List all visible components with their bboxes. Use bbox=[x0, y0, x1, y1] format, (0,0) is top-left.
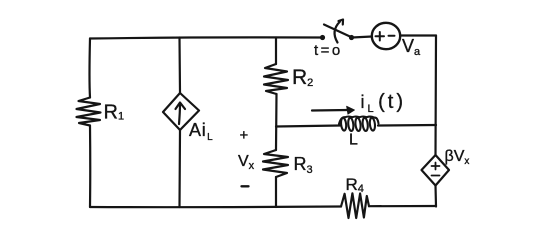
svg-text:βVx: βVx bbox=[445, 148, 470, 167]
wire CCCS column top bbox=[178, 38, 181, 94]
svg-text:t=o: t=o bbox=[314, 42, 343, 59]
svg-text:R3: R3 bbox=[294, 154, 313, 176]
inductor L bbox=[339, 117, 379, 132]
svg-text:R4: R4 bbox=[346, 175, 364, 195]
resistor R3 bbox=[263, 150, 288, 177]
wire right vertical upper bbox=[434, 36, 437, 156]
switch arc arrow bbox=[335, 20, 343, 43]
wire right vertical lower bbox=[434, 186, 437, 207]
svg-text:iL(t): iL(t) bbox=[361, 91, 407, 115]
switch S1 blade bbox=[324, 25, 351, 38]
wire CCCS column bottom bbox=[178, 130, 181, 207]
svg-text:L: L bbox=[349, 132, 358, 149]
dependent current source U1 diamond AiL bbox=[163, 93, 199, 130]
voltage source Va circle bbox=[372, 23, 400, 49]
wire R2/R3 column top bbox=[275, 38, 277, 65]
svg-text:R1: R1 bbox=[104, 102, 125, 124]
switch node A dot left bbox=[320, 35, 325, 40]
svg-text:AiL: AiL bbox=[189, 120, 213, 143]
wire top-left horizontal (node from left to switch) bbox=[90, 37, 322, 38]
wire source to top-right corner bbox=[400, 34, 436, 36]
wire left vertical lower bbox=[89, 126, 91, 208]
wire inductor to right bbox=[378, 124, 436, 127]
switch node B dot right bbox=[349, 35, 354, 40]
label Vx minus bbox=[242, 185, 249, 187]
svg-text:R2: R2 bbox=[292, 66, 313, 89]
dependent source U2 diamond BVx bbox=[422, 155, 450, 186]
wire bottom horizontal right segment bbox=[369, 205, 436, 207]
BVx plus sign bbox=[432, 163, 440, 170]
svg-text:Vx: Vx bbox=[238, 153, 255, 172]
svg-text:+: + bbox=[240, 127, 249, 144]
current source arrow bbox=[176, 103, 186, 125]
resistor R4 bbox=[341, 193, 369, 218]
resistor R2 bbox=[264, 64, 288, 94]
wire middle horizontal to inductor bbox=[276, 126, 340, 127]
wire switch to source bbox=[352, 37, 372, 38]
svg-text:Va: Va bbox=[402, 36, 421, 58]
wire left vertical bbox=[88, 39, 91, 98]
wire R3 to bottom bbox=[275, 177, 277, 207]
wire R2 to middle junction bbox=[275, 94, 278, 150]
Va plus sign bbox=[376, 32, 385, 41]
current arrow iL(t) bbox=[312, 109, 348, 112]
Va minus sign bbox=[389, 35, 395, 37]
wire bottom horizontal left segment bbox=[90, 205, 341, 208]
BVx minus sign bbox=[432, 175, 440, 177]
resistor R1 bbox=[77, 98, 101, 126]
